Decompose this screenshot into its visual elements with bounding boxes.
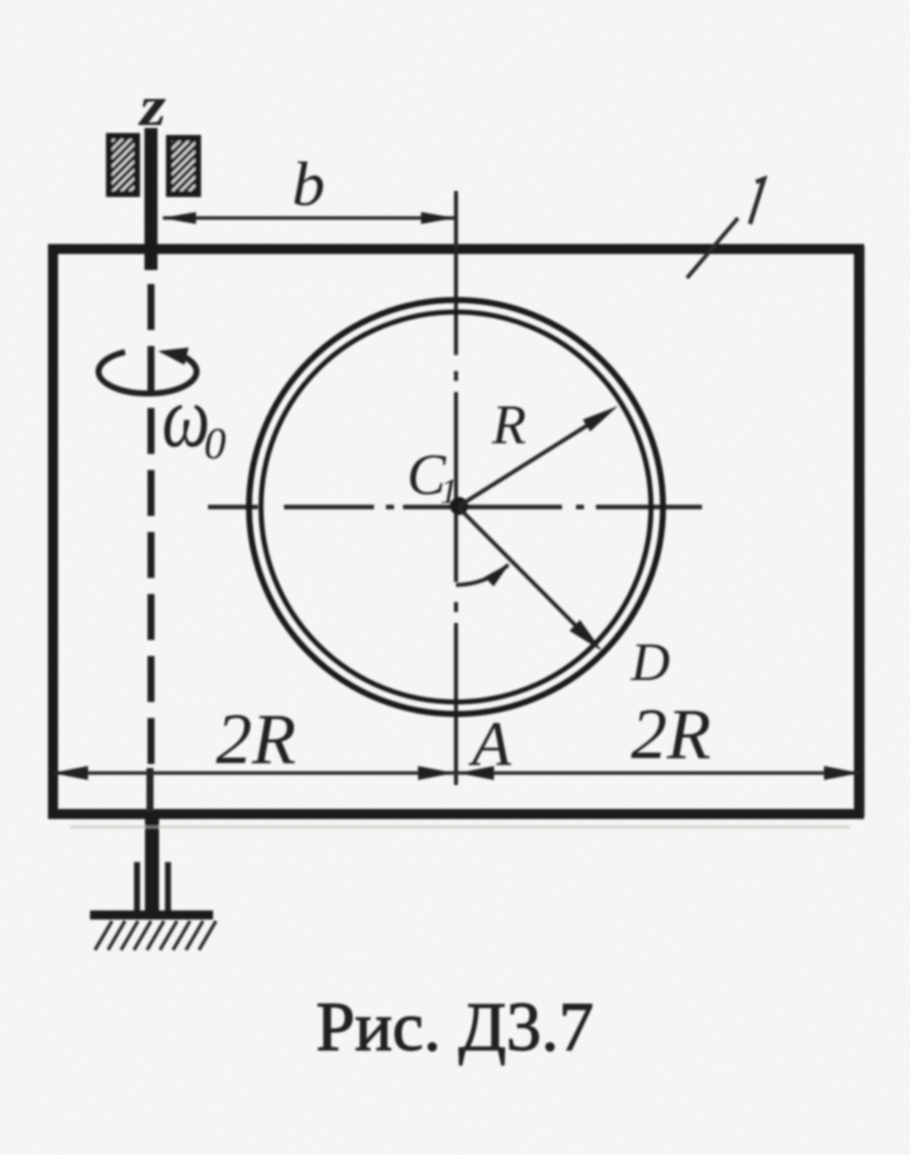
scan noise overlay <box>0 0 1 1</box>
dimension b line <box>163 216 454 220</box>
dimension 2R far-right arrowhead <box>824 766 860 780</box>
ring outer circle <box>249 300 663 714</box>
radius CD line <box>459 508 590 640</box>
plate number 1 label <box>750 179 764 224</box>
dimension b left arrowhead <box>162 212 196 224</box>
right wall extra thickness <box>860 246 865 816</box>
center dot C1 <box>450 497 468 515</box>
dimension 2R line <box>53 771 859 775</box>
angle arc <box>456 565 508 585</box>
bottom bearing collar left <box>134 862 140 912</box>
radius CD arrowhead at D <box>570 620 603 651</box>
shaft bottom (thick) <box>145 812 159 913</box>
radius R line <box>459 413 607 506</box>
omega0 arrowhead <box>158 348 189 366</box>
plate outline (rectangular plate) <box>53 249 859 814</box>
ground line <box>90 911 213 920</box>
ring inner circle <box>261 312 651 702</box>
dimension b right arrowhead <box>421 212 455 224</box>
omega0 rotation arrow (ellipse arc) <box>99 352 197 394</box>
scan shadow under bottom edge <box>70 826 850 829</box>
radius R arrowhead <box>583 406 618 432</box>
angle arc arrowhead <box>485 563 510 587</box>
axis z lower solid segment <box>147 768 154 812</box>
bottom bearing collar right <box>165 862 171 912</box>
bearing block right <box>169 138 198 194</box>
ground hatching <box>95 921 216 950</box>
dimension 2R center-left arrowhead <box>418 766 454 780</box>
horizontal centerline (dash-dot) <box>208 505 702 510</box>
dimension 2R center-right arrowhead <box>458 766 494 780</box>
bearing block left <box>109 136 137 194</box>
leader line to plate <box>687 218 738 278</box>
axis z dashed line <box>148 284 155 770</box>
dimension 2R far-left arrowhead <box>52 766 88 780</box>
shaft top (thick) <box>145 128 158 270</box>
vertical centerline (dash-dot) <box>454 191 458 785</box>
